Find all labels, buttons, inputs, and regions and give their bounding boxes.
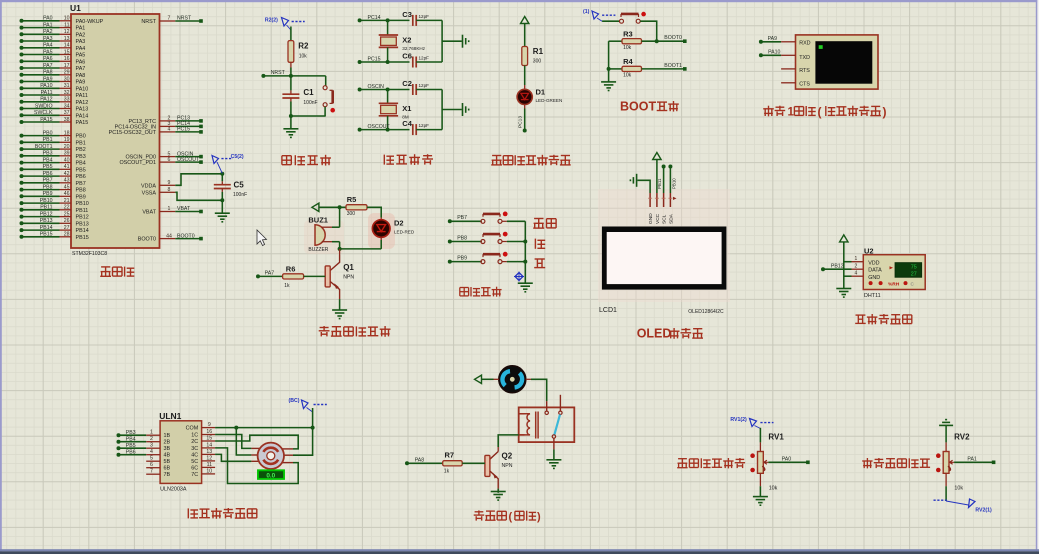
U1 pin 39 wire + terminal PB3 xyxy=(20,151,86,160)
resistor R1 300 xyxy=(522,47,544,66)
svg-text:PB7: PB7 xyxy=(457,215,467,221)
U1 pin 27 wire + terminal PB14 xyxy=(20,225,89,234)
svg-text:PB14: PB14 xyxy=(40,225,53,231)
wire COM rail to probe xyxy=(312,408,314,428)
svg-text:RV2(1): RV2(1) xyxy=(975,508,992,514)
U1 pin 28 wire + terminal PB15 xyxy=(20,232,89,241)
svg-text:4: 4 xyxy=(855,271,858,277)
ground Q1 xyxy=(332,309,347,311)
motor speed display xyxy=(258,470,284,479)
U1 pin 17 wire + terminal PA7 xyxy=(20,63,86,72)
driver ULN1 ULN2003A body xyxy=(159,411,201,493)
svg-text:34: 34 xyxy=(64,103,70,109)
wire relay coil to Q2 collector xyxy=(498,435,519,447)
svg-text:10k: 10k xyxy=(623,73,632,79)
svg-text:PA8: PA8 xyxy=(43,70,53,76)
svg-text:46: 46 xyxy=(64,191,70,197)
capacitor C1 100nF xyxy=(282,76,317,116)
svg-text:PB15: PB15 xyxy=(76,235,89,241)
wire 3C to bottom loop xyxy=(215,448,298,484)
U1 pin 25 wire + terminal PB12 xyxy=(20,211,89,220)
label 独立按键 (independent buttons) xyxy=(460,287,502,297)
ULN1 pin 10 7C stub xyxy=(191,468,215,478)
svg-text:R2(2): R2(2) xyxy=(265,17,278,23)
ground crystal xyxy=(462,103,464,116)
resistor R5 300 xyxy=(346,195,367,217)
svg-text:7C: 7C xyxy=(191,472,198,478)
svg-text:PB5: PB5 xyxy=(126,443,136,449)
svg-text:OSCOUT: OSCOUT xyxy=(177,157,200,163)
svg-text:U1: U1 xyxy=(70,3,81,13)
svg-text:38: 38 xyxy=(64,117,70,123)
transistor Q1 NPN xyxy=(325,249,354,299)
svg-text:PB7: PB7 xyxy=(43,178,53,184)
svg-text:PC13: PC13 xyxy=(518,116,524,128)
svg-text:D1: D1 xyxy=(536,88,546,97)
wire COM pin9 rail xyxy=(215,426,315,430)
svg-text:15: 15 xyxy=(64,49,70,55)
wire D1 to PC13 net xyxy=(518,105,527,133)
svg-text:4: 4 xyxy=(150,449,153,455)
svg-text:RV1(2): RV1(2) xyxy=(730,417,747,423)
wire R1 to D1 xyxy=(524,66,526,90)
svg-text:DATA: DATA xyxy=(868,268,882,274)
potentiometer RV1 10k xyxy=(750,433,784,492)
U1 pin 18 wire + terminal PB0 xyxy=(20,130,86,139)
svg-text:10k: 10k xyxy=(623,45,632,51)
ULN1 pin 4 4B wire + terminal PB6 xyxy=(117,449,171,459)
label 异味数值调节 (odor value adjust) xyxy=(677,458,745,468)
svg-text:16: 16 xyxy=(206,429,212,435)
svg-text:OLED: OLED xyxy=(637,327,672,341)
svg-text:PA3: PA3 xyxy=(76,39,86,45)
svg-text:75: 75 xyxy=(911,264,917,270)
svg-text:RXD: RXD xyxy=(799,40,810,46)
svg-text:PB2: PB2 xyxy=(76,147,86,153)
wire RV2 wiper to terminal PA1 xyxy=(954,456,995,464)
svg-text:VCC: VCC xyxy=(655,213,661,224)
power arrow fan xyxy=(475,375,482,383)
ULN1 pin 5 5B stub xyxy=(146,456,170,466)
label 四项步进电机 (4-phase stepper motor) xyxy=(188,508,256,519)
svg-text:R6: R6 xyxy=(286,264,296,273)
svg-text:C5: C5 xyxy=(234,181,245,190)
probe RV2(1) xyxy=(934,499,993,514)
cursor arrow xyxy=(257,230,267,246)
svg-text:C2: C2 xyxy=(402,79,412,88)
U1 pin 10 wire + terminal PA0 xyxy=(20,16,104,25)
svg-text:LED-RED: LED-RED xyxy=(394,230,415,235)
capacitor C3 12pF xyxy=(402,10,442,26)
svg-text:ULN1: ULN1 xyxy=(159,411,181,421)
svg-text:PB15: PB15 xyxy=(40,232,53,238)
terminal PC15 wire xyxy=(358,57,410,65)
label BOOT电路 (BOOT circuit) xyxy=(620,100,656,114)
wire probe to RV1 xyxy=(759,428,761,452)
svg-text:PA9: PA9 xyxy=(76,80,86,86)
resistor R3 10k xyxy=(609,30,642,51)
svg-text:PB10: PB10 xyxy=(76,201,89,207)
resistor R7 1k + wire PA8 xyxy=(405,450,485,474)
U1 pin 16 wire + terminal PA6 xyxy=(20,56,86,65)
wire Q1 emitter to ground xyxy=(339,299,341,310)
fan xyxy=(499,366,526,393)
svg-text:PA4: PA4 xyxy=(76,46,86,52)
svg-text:PA3: PA3 xyxy=(43,36,53,42)
svg-text:C6: C6 xyxy=(402,52,412,61)
label OLED显示屏 xyxy=(637,327,672,341)
wire 1C to motor left-upper pin xyxy=(215,435,242,442)
svg-text:PA11: PA11 xyxy=(76,93,88,99)
svg-text:PB12: PB12 xyxy=(76,215,89,221)
capacitor C2 12pF xyxy=(402,79,442,95)
wire power to R1 xyxy=(524,24,526,47)
svg-text:11: 11 xyxy=(64,22,69,28)
svg-text:PB1: PB1 xyxy=(43,137,53,143)
U1 pin 33 wire + terminal PA12 xyxy=(20,97,89,106)
svg-text:9: 9 xyxy=(208,422,211,428)
svg-text:4B: 4B xyxy=(164,453,171,459)
wire RV1 to ground xyxy=(759,473,761,496)
potentiometer RV2 10k xyxy=(936,433,970,492)
ULN1 pin 1 1B wire + terminal PB3 xyxy=(117,430,171,440)
svg-text:PA13: PA13 xyxy=(76,107,89,113)
selection halo OLED xyxy=(598,189,730,302)
U1 pin 13 wire + terminal PA3 xyxy=(20,36,86,45)
svg-text:SWCLK: SWCLK xyxy=(34,110,53,116)
ULN1 pin 9 COM stub xyxy=(186,422,215,432)
svg-text:30: 30 xyxy=(64,76,70,82)
svg-text:7B: 7B xyxy=(164,472,171,478)
net stub PB11 to SCL xyxy=(657,165,665,194)
reset button xyxy=(323,76,335,116)
svg-text:NPN: NPN xyxy=(343,275,354,281)
svg-text:PA12: PA12 xyxy=(40,97,52,103)
svg-text:PB4: PB4 xyxy=(126,436,136,442)
ground BOOT circuit xyxy=(601,81,616,83)
svg-text:2: 2 xyxy=(855,264,858,270)
U1 pin 41 wire + terminal PB5 xyxy=(20,164,86,173)
label 设置 (set) xyxy=(533,219,556,229)
ULN1 pin 3 3B wire + terminal PB5 xyxy=(117,443,171,453)
svg-text:PA1: PA1 xyxy=(43,22,53,28)
svg-text:300: 300 xyxy=(347,211,356,217)
svg-text:PB6: PB6 xyxy=(43,171,53,177)
svg-text:2C: 2C xyxy=(191,439,198,445)
svg-text:NPN: NPN xyxy=(502,463,513,469)
ULN1 pin 14 3C stub xyxy=(191,442,215,452)
probe R2(2) xyxy=(265,17,305,30)
svg-text:SDA: SDA xyxy=(668,213,674,224)
svg-text:COM: COM xyxy=(186,426,199,432)
wire fan left pin xyxy=(482,378,499,380)
svg-text:300: 300 xyxy=(533,59,542,65)
U1 pin 37 wire + terminal SWCLK xyxy=(20,110,89,119)
U1 pin 12 wire + terminal PA2 xyxy=(20,29,86,38)
svg-text:PB4: PB4 xyxy=(76,161,86,167)
svg-text:RTS: RTS xyxy=(799,68,810,74)
svg-text:44: 44 xyxy=(166,233,172,239)
svg-text:6C: 6C xyxy=(191,465,198,471)
ULN1 pin 7 7B stub xyxy=(146,469,170,479)
ground crystal xyxy=(462,35,464,48)
svg-text:6: 6 xyxy=(150,462,153,468)
svg-text:BUZ1: BUZ1 xyxy=(308,215,328,224)
svg-text:32: 32 xyxy=(64,90,70,96)
svg-text:PB6: PB6 xyxy=(76,174,86,180)
label 加 (plus) xyxy=(535,239,545,249)
ULN1 pin 6 6B stub xyxy=(146,462,170,472)
svg-text:10: 10 xyxy=(64,16,70,22)
svg-text:PA6: PA6 xyxy=(43,56,53,62)
button PB7 wire + terminal xyxy=(448,212,526,224)
wire RV1 wiper to terminal PA0 xyxy=(768,456,809,464)
svg-text:R7: R7 xyxy=(445,450,455,459)
wire power to RV2 xyxy=(945,425,947,451)
label 温湿度模块 (temp-humidity module) xyxy=(855,314,912,325)
svg-text:PC15: PC15 xyxy=(368,57,381,63)
svg-text:PA6: PA6 xyxy=(76,59,86,65)
svg-text:PB9: PB9 xyxy=(43,191,53,197)
svg-text:14: 14 xyxy=(206,442,212,448)
svg-text:14: 14 xyxy=(64,43,70,49)
power arrow alarm xyxy=(312,203,319,211)
wire relay common to ground xyxy=(553,449,555,459)
svg-text:BOOT1: BOOT1 xyxy=(664,63,682,69)
svg-text:12pF: 12pF xyxy=(419,83,430,88)
svg-text:ULN2003A: ULN2003A xyxy=(160,487,187,493)
wire pin1 VDD xyxy=(844,256,864,262)
svg-text:37: 37 xyxy=(64,110,70,116)
svg-text:100nF: 100nF xyxy=(303,100,317,106)
svg-text:42: 42 xyxy=(64,171,70,177)
svg-text:PA2: PA2 xyxy=(76,32,86,38)
U1 pin 29 wire + terminal PA8 xyxy=(20,70,86,79)
svg-text:BOOT0: BOOT0 xyxy=(177,233,195,239)
motor MOTOR-4PH xyxy=(251,443,293,469)
svg-text:BOOT: BOOT xyxy=(620,100,656,114)
svg-text:PA9: PA9 xyxy=(768,36,778,42)
U1 pin 6 OSCOUT_PD1 wire + terminal OSCOUT xyxy=(119,157,202,166)
U1 pin 43 wire + terminal PB7 xyxy=(20,178,86,187)
capacitor C5 100nF xyxy=(214,172,247,203)
power symbol RV2 xyxy=(939,420,953,426)
svg-text:12pF: 12pF xyxy=(419,123,430,128)
U1 pin 11 wire + terminal PA1 xyxy=(20,22,86,31)
svg-text:NRST: NRST xyxy=(141,19,156,25)
power arrow OLED xyxy=(653,153,661,160)
svg-text:C3: C3 xyxy=(402,10,412,19)
svg-text:R3: R3 xyxy=(623,30,633,39)
label 继电器(通风) (relay-ventilation) xyxy=(474,510,507,520)
relay RL1 xyxy=(519,395,575,450)
U1 pin 2 PC13_RTC wire + terminal PC13 xyxy=(129,116,203,125)
button PB9 wire + terminal xyxy=(448,252,526,264)
svg-text:BUZZER: BUZZER xyxy=(308,247,328,253)
virtual terminal window xyxy=(781,35,878,89)
svg-text:PB3: PB3 xyxy=(126,430,136,436)
svg-text:PB10: PB10 xyxy=(671,178,676,189)
wire R5 to D2 xyxy=(367,207,381,217)
svg-text:C5(2): C5(2) xyxy=(231,154,244,160)
wire PB12 to pin2 DATA xyxy=(821,264,863,272)
ground reset circuit xyxy=(283,128,298,130)
svg-text:(: ( xyxy=(818,105,822,119)
svg-text:OLED12864I2C: OLED12864I2C xyxy=(688,309,724,315)
U1 pin 8 VSSA wire xyxy=(142,187,223,200)
probe C5(2) xyxy=(212,154,244,174)
svg-text:C1: C1 xyxy=(303,88,314,97)
svg-text:32.768KHz: 32.768KHz xyxy=(402,46,425,51)
label 串口1窗口（模拟手机端） (serial window) xyxy=(763,106,794,119)
svg-text:PB13: PB13 xyxy=(40,218,53,224)
U1 pin 3 PC14-OSC32_IN wire + terminal PC14 xyxy=(115,121,203,130)
wire 4C to motor left-lower pin xyxy=(215,454,251,461)
U1 pin 14 wire + terminal PA4 xyxy=(20,43,86,52)
svg-text:PB9: PB9 xyxy=(457,255,467,261)
svg-text:43: 43 xyxy=(64,178,70,184)
wire Q2 emitter to ground xyxy=(497,489,499,493)
svg-text:PB0: PB0 xyxy=(76,134,86,140)
net stub PB10 to SDA xyxy=(668,165,676,194)
svg-text:3C: 3C xyxy=(191,446,198,452)
svg-text:SCL: SCL xyxy=(662,214,668,224)
svg-text:RV1: RV1 xyxy=(768,433,784,442)
glow behind buzzer xyxy=(304,220,344,254)
svg-text:3: 3 xyxy=(150,443,153,449)
wire button to BOOT0 node xyxy=(640,21,657,41)
svg-text:PB5: PB5 xyxy=(76,167,86,173)
wire power rail DHT11 xyxy=(843,242,845,288)
svg-text:PA7: PA7 xyxy=(43,63,53,69)
U1 pin 30 wire + terminal PA9 xyxy=(20,76,86,85)
svg-text:45: 45 xyxy=(64,184,70,190)
capacitor C6 12pF xyxy=(402,52,442,68)
svg-text:(: ( xyxy=(509,511,513,523)
svg-text:VDDA: VDDA xyxy=(141,183,156,189)
transistor Q2 NPN xyxy=(485,447,513,489)
resistor R4 10k xyxy=(609,57,642,78)
svg-text:VBAT: VBAT xyxy=(142,210,156,216)
svg-text:VBAT: VBAT xyxy=(177,206,191,212)
label 声光报警电路 (sound-light alarm circuit) xyxy=(319,326,391,337)
svg-text:20: 20 xyxy=(64,144,70,150)
svg-text:10: 10 xyxy=(206,468,212,474)
svg-text:PA8: PA8 xyxy=(76,73,86,79)
svg-text:PA1: PA1 xyxy=(967,456,977,462)
wire ground to GND pin xyxy=(638,180,651,193)
svg-text:TXD: TXD xyxy=(799,55,810,61)
svg-text:VDD: VDD xyxy=(868,260,879,266)
svg-text:SWDIO: SWDIO xyxy=(35,103,53,109)
sensor U2 DHT11 xyxy=(863,247,925,300)
LED D2 LED-RED xyxy=(372,218,414,238)
svg-text:PA10: PA10 xyxy=(76,86,89,92)
svg-text:22: 22 xyxy=(64,205,70,211)
svg-text:LED-GREEN: LED-GREEN xyxy=(536,98,563,103)
svg-text:PC15-OSC32_OUT: PC15-OSC32_OUT xyxy=(109,130,157,136)
svg-text:PB8: PB8 xyxy=(457,235,467,241)
U1 pin 42 wire + terminal PB6 xyxy=(20,171,86,180)
svg-text:31: 31 xyxy=(64,83,70,89)
svg-text:12: 12 xyxy=(64,29,70,35)
svg-text:33: 33 xyxy=(64,97,70,103)
node NRST wire xyxy=(261,70,325,78)
svg-text:PB11: PB11 xyxy=(657,178,662,189)
BOOT button xyxy=(602,12,646,23)
ULN1 pin 11 6C stub xyxy=(191,462,215,472)
wire pin4 GND xyxy=(844,271,864,277)
U1 pin 34 wire + terminal SWDIO xyxy=(20,103,89,112)
wire 2C staircase to motor xyxy=(215,435,298,449)
svg-text:(1): (1) xyxy=(583,9,590,15)
ground Q2 xyxy=(491,491,506,493)
wire COM to motor right-mid pin xyxy=(293,428,313,456)
svg-text:10k: 10k xyxy=(299,54,308,60)
svg-text:CTS: CTS xyxy=(799,81,810,87)
svg-text:5C: 5C xyxy=(191,459,198,465)
svg-text:6: 6 xyxy=(168,157,171,163)
svg-text:PB11: PB11 xyxy=(76,208,89,214)
svg-text:4: 4 xyxy=(168,127,171,133)
svg-text:PB13: PB13 xyxy=(76,221,89,227)
svg-text:NRST: NRST xyxy=(177,16,192,22)
U1 pin 15 wire + terminal PA5 xyxy=(20,49,86,58)
probe (BC) xyxy=(289,398,327,412)
svg-text:PA12: PA12 xyxy=(76,100,89,106)
svg-text:1: 1 xyxy=(168,206,171,212)
svg-text:R2: R2 xyxy=(298,42,309,51)
ULN1 pin 13 4C stub xyxy=(191,449,215,459)
op-amp U1 body (MCU STM32F103C8) xyxy=(71,14,160,248)
svg-text:PB7: PB7 xyxy=(76,181,86,187)
svg-text:GND: GND xyxy=(648,213,654,224)
U1 pin 21 wire + terminal PB10 xyxy=(20,198,89,207)
svg-text:29: 29 xyxy=(64,70,70,76)
wire C1/button to ground xyxy=(289,114,326,129)
svg-text:PA5: PA5 xyxy=(43,49,53,55)
svg-text:(BC): (BC) xyxy=(289,398,300,404)
svg-text:6B: 6B xyxy=(164,466,171,472)
svg-text:1k: 1k xyxy=(284,283,290,289)
svg-text:X2: X2 xyxy=(402,36,411,45)
svg-text:13: 13 xyxy=(206,449,212,455)
svg-text:PC15: PC15 xyxy=(177,127,190,133)
svg-text:PB6: PB6 xyxy=(126,449,136,455)
U1 pin 19 wire + terminal PB1 xyxy=(20,137,86,146)
ULN1 pin 12 5C stub xyxy=(191,455,215,465)
svg-text:13: 13 xyxy=(64,36,70,42)
ULN1 pin 16 1C stub xyxy=(191,429,215,439)
U1 pin 44 BOOT0 wire + terminal BOOT0 xyxy=(138,233,203,242)
svg-text:PA8: PA8 xyxy=(415,458,425,464)
wire R2 to NRST node xyxy=(290,62,292,76)
svg-text:PA0: PA0 xyxy=(43,16,53,22)
svg-text:PA10: PA10 xyxy=(40,83,52,89)
label 复位电路 (reset circuit) xyxy=(282,155,331,166)
wire PA10 to TXD xyxy=(759,50,796,58)
svg-text:BOOT0: BOOT0 xyxy=(664,35,682,41)
svg-text:Q1: Q1 xyxy=(343,263,354,272)
svg-text:PA10: PA10 xyxy=(768,50,780,56)
svg-text:41: 41 xyxy=(64,164,70,170)
U1 pin 31 wire + terminal PA10 xyxy=(20,83,89,92)
U1 pin 26 wire + terminal PB13 xyxy=(20,218,89,227)
svg-text:15: 15 xyxy=(206,436,212,442)
U1 pin 1 VBAT wire + terminal VBAT xyxy=(142,206,202,215)
svg-text:OSCOUT_PD1: OSCOUT_PD1 xyxy=(119,160,156,166)
svg-text:4C: 4C xyxy=(191,452,198,458)
